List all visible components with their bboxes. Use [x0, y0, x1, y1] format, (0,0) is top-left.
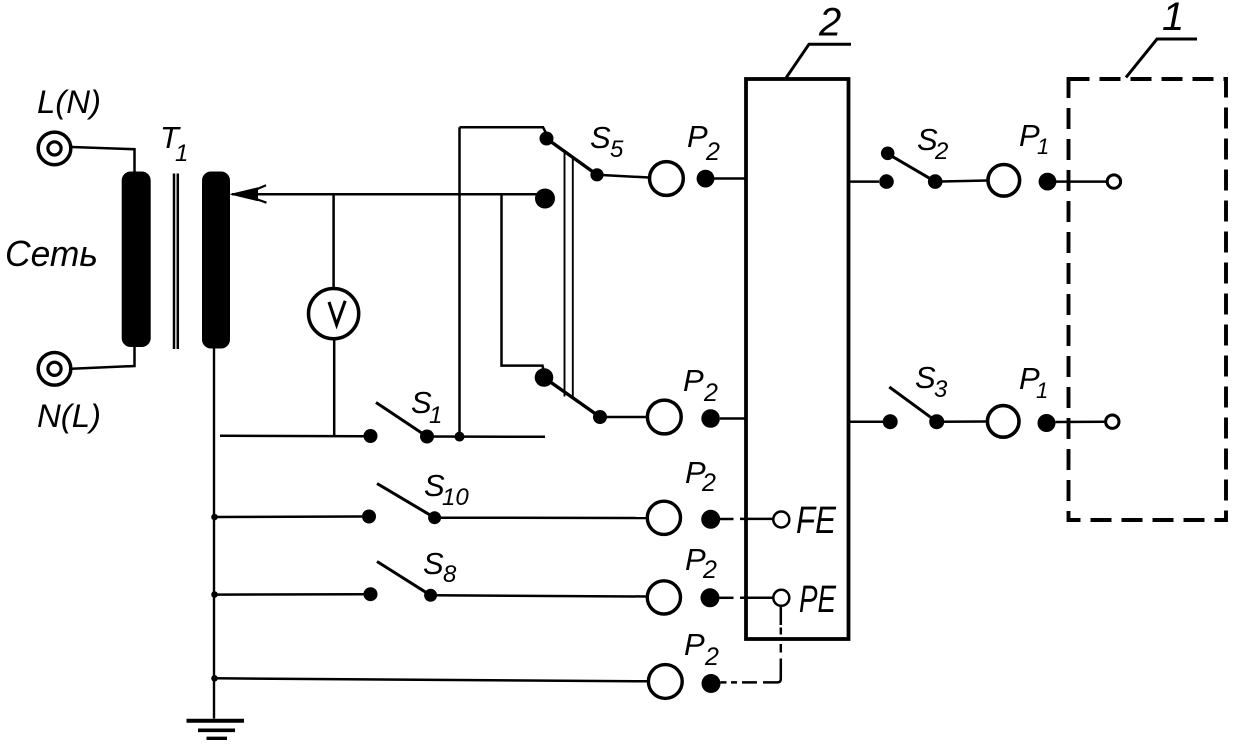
switch S8 blade [377, 562, 431, 596]
junction trunk/bottom [211, 675, 218, 682]
svg-text:2: 2 [705, 138, 720, 166]
transformer T1 secondary winding [202, 172, 230, 349]
svg-text:10: 10 [442, 484, 469, 511]
probe P2 row3 circle [647, 501, 680, 534]
wire S10 row [214, 515, 362, 518]
switch S5 lower fixed contact [535, 368, 554, 387]
switch S2 right contact [928, 174, 943, 189]
terminal FE circle [773, 512, 789, 528]
node P1 row2 dot [1038, 414, 1056, 432]
wire tap arrow line (node A) [232, 193, 545, 196]
svg-text:1: 1 [429, 402, 442, 429]
svg-text:2: 2 [702, 556, 717, 584]
wire S1 to right [427, 435, 545, 438]
junction S1/vertical [455, 432, 465, 442]
node P2 row5 dot [702, 674, 721, 693]
wire vertical to lower pole fixed [502, 194, 545, 372]
svg-text:1: 1 [1036, 378, 1048, 403]
switch S8 moving contact [424, 589, 437, 602]
switch S10 blade [377, 484, 435, 518]
svg-text:P: P [684, 627, 705, 662]
wire S1 row [220, 435, 364, 438]
arrowhead on tap [229, 187, 258, 201]
label 1 leader [1126, 39, 1197, 77]
label 2 leader [786, 44, 851, 77]
probe P1 row1 circle [988, 165, 1020, 197]
switch S8 fixed contact [364, 587, 378, 601]
svg-text:S: S [915, 360, 936, 395]
wire trunk (secondary to ground) [213, 346, 215, 719]
box 1 (dashed appliance box) [1069, 79, 1227, 520]
box 2 (unit under calibration) [746, 79, 849, 639]
node P2 top dot [697, 170, 715, 188]
switch S5 upper moving contact [590, 168, 603, 181]
dashed wire P2 row5 to PE corner [721, 659, 781, 683]
switch S3 blade [889, 387, 936, 422]
node: tap line end contact [535, 189, 555, 209]
switch S1 blade [376, 403, 427, 437]
terminal XS1 L(N) [38, 132, 71, 165]
switch S10 moving contact [428, 511, 441, 524]
svg-text:1: 1 [1037, 134, 1049, 159]
transformer T1 primary winding [122, 172, 151, 348]
svg-text:1: 1 [1162, 0, 1184, 39]
svg-text:2: 2 [934, 138, 948, 165]
wire P2 row2 to box 2 [720, 417, 745, 420]
transformer T1 core [173, 174, 176, 350]
switch S3 right contact [929, 414, 944, 429]
wire terminal L to primary [72, 147, 135, 172]
svg-text:S: S [590, 120, 611, 155]
wire P1 row1 into box 1 [1056, 180, 1107, 183]
node P2 row4 dot [701, 588, 720, 607]
wire P2 top to box 2 [714, 177, 745, 180]
svg-text:1: 1 [175, 140, 188, 167]
svg-text:8: 8 [443, 561, 457, 588]
svg-text:2: 2 [703, 379, 718, 407]
voltmeter PV1 top lead wire [332, 194, 335, 288]
wire S5 to P2 top [597, 175, 649, 178]
wire PE stub down [780, 606, 783, 625]
svg-text:L(N): L(N) [37, 84, 101, 120]
wire P2 row3 to FE [720, 518, 734, 521]
wire S8 row [214, 593, 364, 596]
terminal PE circle [773, 590, 789, 606]
ground [187, 719, 245, 723]
svg-text:FE: FE [796, 500, 837, 542]
wire P1 row2 into box 1 [1056, 420, 1106, 423]
svg-text:P: P [683, 363, 704, 398]
svg-text:2: 2 [818, 1, 841, 45]
switch S10 fixed contact [362, 510, 376, 524]
probe P2 row5 circle [648, 665, 682, 699]
node P2 row2 dot [701, 409, 720, 428]
probe P2 row4 circle [647, 581, 680, 614]
wire S10 to P2 row3 [435, 516, 647, 519]
terminal XS2 N(L) [38, 353, 71, 386]
dashed wire PE vertical [780, 628, 783, 653]
socket contact row1 (open circle) [1107, 175, 1120, 188]
wire box2 to S2 [849, 180, 880, 183]
switch S1 moving contact [420, 430, 434, 444]
switch S2 pivot dot [881, 147, 895, 161]
wire terminal N to primary bottom [72, 346, 135, 369]
svg-text:3: 3 [934, 376, 948, 403]
switch S5 lower blade [544, 378, 600, 418]
switch S5 upper fixed contact [540, 132, 554, 146]
wire P2 row4 to PE [720, 597, 734, 600]
voltmeter PV1 bottom lead wire [333, 339, 336, 435]
switch S5 mechanical link [564, 152, 566, 397]
svg-text:N(L): N(L) [37, 398, 101, 434]
node S2 left contact [879, 174, 894, 189]
wire S3 to P1 row2 [937, 420, 987, 423]
voltmeter PV1 [309, 289, 359, 339]
probe P2 row2 circle [647, 400, 681, 434]
wire vertical S5-to-S1 [458, 127, 461, 436]
switch S1 fixed contact [364, 429, 378, 443]
wire S8 to P2 row4 [431, 595, 647, 596]
wire S2 to P1 [935, 181, 988, 182]
svg-text:Сеть: Сеть [5, 233, 98, 274]
svg-text:S: S [423, 546, 444, 581]
wire bottom row [214, 678, 648, 681]
switch S5 upper blade [547, 139, 598, 175]
svg-text:PE: PE [799, 579, 836, 621]
wire S5 lower to P2 row2 [600, 416, 646, 419]
wire S5 upper fixed line [460, 127, 547, 134]
wire box2 to S3 [849, 420, 884, 423]
switch S2 blade [889, 155, 935, 182]
svg-text:2: 2 [701, 469, 716, 497]
probe P2 top circle [650, 162, 684, 196]
socket contact row2 (open circle) [1106, 415, 1119, 428]
junction trunk/S10 [211, 514, 218, 521]
node S3 left contact [883, 414, 898, 429]
node P2 row3 dot [701, 510, 720, 529]
svg-text:P: P [687, 119, 708, 154]
svg-text:5: 5 [610, 136, 624, 163]
junction trunk/S8 [211, 591, 218, 598]
svg-text:2: 2 [704, 643, 719, 671]
switch S5 lower moving contact [593, 410, 607, 424]
probe P1 row2 circle [987, 406, 1019, 438]
node P1 row1 dot [1039, 173, 1057, 191]
